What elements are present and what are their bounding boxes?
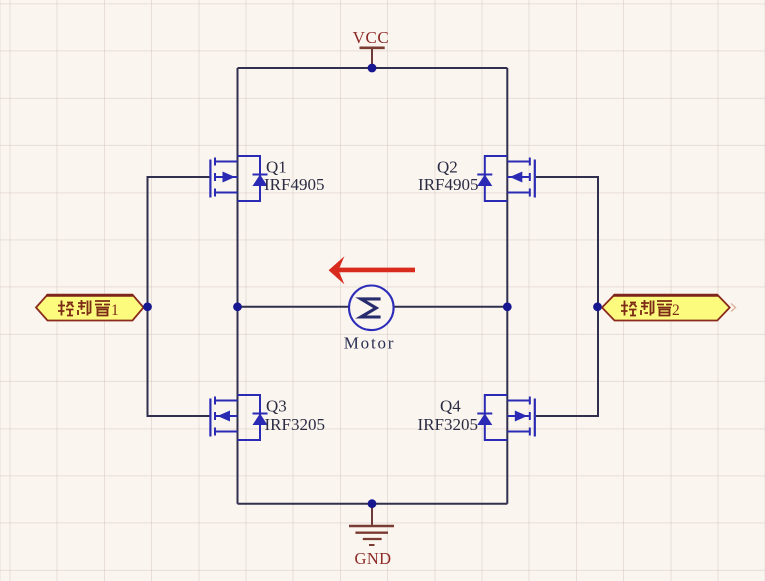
svg-text:IRF4905: IRF4905 xyxy=(418,175,478,194)
svg-text:IRF4905: IRF4905 xyxy=(264,175,324,194)
svg-text:Q2: Q2 xyxy=(437,158,458,177)
svg-text:Q3: Q3 xyxy=(266,397,287,416)
svg-text:Q4: Q4 xyxy=(440,397,461,416)
svg-text:IRF3205: IRF3205 xyxy=(418,415,478,434)
svg-text:VCC: VCC xyxy=(353,28,390,47)
svg-text:Q1: Q1 xyxy=(266,158,287,177)
svg-text:GND: GND xyxy=(355,549,392,568)
svg-text:1: 1 xyxy=(111,302,119,319)
svg-text:2: 2 xyxy=(672,302,680,319)
svg-text:Motor: Motor xyxy=(344,334,396,353)
svg-text:IRF3205: IRF3205 xyxy=(265,415,325,434)
